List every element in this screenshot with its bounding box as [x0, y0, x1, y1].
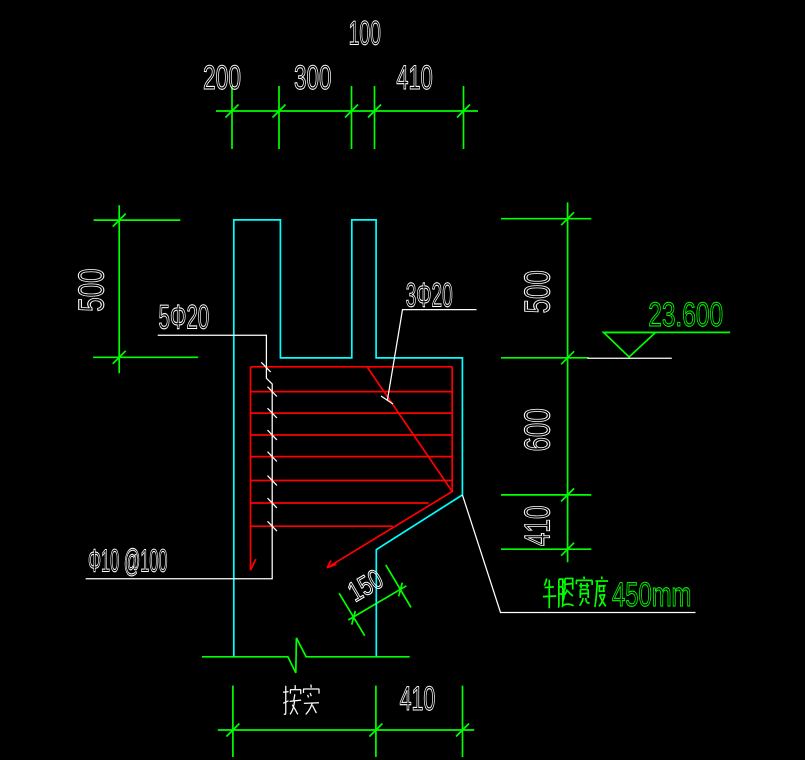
svg-text:410: 410: [516, 505, 557, 546]
svg-text:410: 410: [400, 680, 436, 718]
svg-text:500: 500: [516, 270, 557, 313]
svg-text:5Φ20: 5Φ20: [159, 298, 210, 336]
svg-text:450mm: 450mm: [612, 576, 691, 614]
svg-text:600: 600: [516, 408, 557, 451]
svg-text:200: 200: [203, 59, 241, 97]
svg-text:100: 100: [349, 15, 381, 53]
svg-text:Φ10 @100: Φ10 @100: [88, 543, 168, 579]
svg-text:300: 300: [294, 59, 331, 97]
svg-text:500: 500: [70, 268, 111, 311]
svg-text:23.600: 23.600: [648, 296, 723, 334]
svg-text:410: 410: [396, 59, 432, 97]
svg-text:3Φ20: 3Φ20: [406, 277, 453, 315]
